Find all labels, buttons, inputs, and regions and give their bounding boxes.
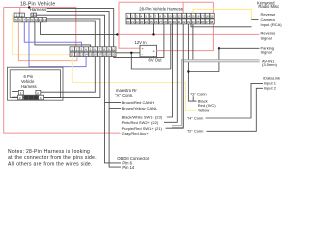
svg-text:Yellow: Yellow — [198, 108, 210, 113]
svg-text:6V Out: 6V Out — [149, 58, 163, 63]
node: junction on red at 18-pin — [28, 6, 30, 8]
wire: yellow illumination from 18-pin — [12, 15, 70, 55]
svg-text:24: 24 — [145, 20, 149, 24]
svg-text:17: 17 — [98, 53, 102, 57]
connector J2: maestro harness row 2 — [70, 52, 116, 57]
svg-text:(3.5mm): (3.5mm) — [262, 62, 278, 67]
wire: SW1+ (21) up to 28-pin — [166, 24, 184, 128]
wire: 6-pin left stub 2 — [12, 96, 18, 98]
wire: red pin stub on 18-pin pin 2 — [19, 8, 21, 14]
node: parking junction — [218, 47, 220, 49]
wire: red Gray/Red Acc+ run — [4, 8, 121, 134]
wire: maestro CANH run to OBDII pin 6 — [105, 57, 122, 163]
svg-text:"A" Conn.: "A" Conn. — [115, 93, 133, 98]
svg-text:Black/White SW1- (23): Black/White SW1- (23) — [122, 115, 163, 120]
component: 6-pin vehicle harness outer box — [8, 67, 64, 100]
svg-text:25: 25 — [150, 20, 154, 24]
node: tap junction — [152, 33, 154, 35]
svg-text:32: 32 — [182, 20, 186, 24]
svg-text:34: 34 — [191, 20, 195, 24]
svg-text:Notes: 28-Pin Harness is look: Notes: 28-Pin Harness is looking — [8, 149, 90, 155]
svg-text:11: 11 — [71, 53, 74, 57]
svg-text:19: 19 — [210, 14, 214, 18]
svg-text:Signal: Signal — [261, 35, 272, 40]
svg-text:12V In: 12V In — [135, 40, 148, 45]
svg-text:12: 12 — [43, 18, 47, 22]
connector J1 pin row 2 — [14, 17, 47, 22]
wire: red feed to converter input — [119, 2, 140, 48]
svg-text:37: 37 — [205, 20, 209, 24]
svg-text:29: 29 — [168, 20, 172, 24]
wire: yellow reverse camera — [193, 9, 251, 19]
svg-text:16: 16 — [94, 53, 98, 57]
svg-text:18: 18 — [103, 53, 107, 57]
wire: black ground drop from 28-pin to G-conn Black — [188, 24, 196, 101]
svg-text:13: 13 — [80, 53, 84, 57]
wire: CANH label stub — [105, 102, 122, 104]
wire: bypass link to parking — [188, 48, 219, 71]
svg-text:Pink/Red SW2+ (22): Pink/Red SW2+ (22) — [122, 120, 159, 125]
svg-text:Pin 14: Pin 14 — [122, 165, 135, 170]
svg-text:"G" Conn: "G" Conn — [190, 92, 207, 97]
wire: converter ground jog to 28-pin drop — [131, 53, 171, 69]
svg-text:"H" Conn: "H" Conn — [187, 115, 203, 120]
wire: SW2+ (22) up to 28-pin — [164, 24, 177, 122]
svg-text:17: 17 — [201, 14, 205, 18]
svg-text:13: 13 — [182, 14, 186, 18]
svg-text:15: 15 — [191, 14, 195, 18]
wire: SW1- (23) up to 28-pin — [167, 24, 173, 117]
svg-text:20: 20 — [112, 53, 116, 57]
connector J1 pin row 1 — [14, 13, 37, 17]
svg-text:21: 21 — [131, 20, 135, 24]
svg-text:27: 27 — [159, 20, 163, 24]
wire: 6-pin left stub 1 — [12, 91, 18, 93]
wire: cascade w2 — [47, 12, 110, 47]
wire: blue2 from 18-pin to maestro top — [24, 22, 81, 47]
component: converter box — [140, 45, 157, 57]
wire: 28-pin drop B to ground run — [170, 24, 172, 69]
svg-text:Input 2: Input 2 — [264, 86, 277, 91]
wire: cascade w4 — [46, 19, 100, 47]
component: 6-pin vehicle harness inner box — [10, 70, 60, 98]
wire: yellow long run to G-conn Yellow — [72, 57, 196, 111]
svg-text:12: 12 — [75, 53, 79, 57]
svg-text:16: 16 — [196, 14, 200, 18]
svg-text:33: 33 — [187, 20, 191, 24]
svg-text:Input (RCA): Input (RCA) — [261, 22, 283, 27]
wire: 28-pin drop to AV bar — [192, 24, 194, 60]
svg-text:19: 19 — [107, 53, 111, 57]
connector J2: maestro harness row 1 — [70, 47, 116, 52]
node: reverse junction — [116, 33, 118, 35]
svg-text:"D" Conn: "D" Conn — [187, 128, 203, 133]
svg-text:36: 36 — [201, 20, 205, 24]
svg-text:28: 28 — [163, 20, 167, 24]
svg-text:15: 15 — [89, 53, 93, 57]
node: parking bypass junction — [187, 70, 189, 72]
svg-text:Gray/Red Acc+: Gray/Red Acc+ — [122, 131, 150, 136]
wire: CANL label stub — [109, 108, 121, 110]
connector J4: 6-pin row 1 — [18, 90, 40, 95]
wire: cascade w6 (gray2 from row2) — [35, 22, 91, 47]
wire: H conn to input 1 — [206, 83, 264, 118]
svg-text:28-Pin Vehicle Harness: 28-Pin Vehicle Harness — [139, 7, 183, 12]
connector J4: 6-pin row 2 — [18, 95, 44, 100]
wire: cascade w1 from 18-pin to maestro harness — [47, 9, 114, 47]
svg-text:35: 35 — [196, 20, 200, 24]
svg-text:31: 31 — [177, 20, 181, 24]
wire: blue1 from 18-pin to maestro bottom — [29, 22, 86, 67]
svg-text:Signal: Signal — [261, 50, 272, 55]
connector J3: 28-pin row 1 — [126, 13, 214, 18]
wire: 28-pin pin tap to reverse run — [153, 24, 155, 35]
svg-text:Harness: Harness — [21, 84, 37, 89]
svg-text:38: 38 — [210, 20, 214, 24]
wire: red 12V accessory run to maestro harness — [4, 8, 76, 47]
wire: red top bus to radio acc — [119, 1, 213, 3]
connector J3: 28-pin row 2 — [126, 19, 214, 24]
wire: 6V output red to 28-pin — [157, 2, 214, 50]
wire: parking signal — [219, 47, 260, 49]
svg-text:All others are from the wires: All others are from the wires side. — [8, 161, 93, 167]
svg-text:20: 20 — [126, 20, 130, 24]
wire: cascade w3 — [37, 15, 105, 47]
wire: orange from 18-pin — [18, 22, 77, 61]
wire: converter ground to maestro — [116, 52, 140, 54]
svg-text:11: 11 — [39, 18, 42, 22]
wire: camera label stub — [251, 19, 258, 21]
svg-text:Brown/Red CANH: Brown/Red CANH — [122, 100, 154, 105]
wire: RCA gray to camera label — [191, 24, 252, 27]
wire: cascade w5 — [46, 21, 95, 47]
svg-text:30: 30 — [173, 20, 177, 24]
wire: G conn bracket — [192, 96, 194, 101]
wire: red drop to 28-pin acc pin — [182, 2, 184, 13]
wire: reverse signal (dark drop then red run to radio) — [41, 22, 118, 35]
svg-text:10: 10 — [112, 47, 116, 51]
node: ground junction — [130, 52, 132, 54]
svg-text:23: 23 — [140, 20, 144, 24]
wire: AV-IN1 thick cable — [172, 61, 260, 127]
svg-text:Brown/Yellow CANL: Brown/Yellow CANL — [122, 106, 158, 111]
wire: 28-pin drop A to maestro area — [114, 24, 164, 58]
svg-text:14: 14 — [187, 14, 191, 18]
svg-text:18: 18 — [205, 14, 209, 18]
svg-text:11: 11 — [173, 14, 176, 18]
wire: maestro CANL run to OBDII pin 14 — [109, 57, 121, 168]
svg-text:22: 22 — [136, 20, 140, 24]
svg-text:at the connector from the pins: at the connector from the pins side. — [8, 155, 97, 161]
svg-text:iDataLink: iDataLink — [263, 75, 280, 80]
svg-text:Radio Misc: Radio Misc — [258, 4, 279, 9]
wire: 6-pin to maestro link 2 — [44, 57, 100, 98]
wire: 6-pin to maestro link 1 — [41, 57, 96, 93]
svg-text:12: 12 — [177, 14, 181, 18]
wire: D conn to input 2 — [207, 88, 264, 131]
svg-text:14: 14 — [84, 53, 88, 57]
svg-text:10: 10 — [168, 14, 172, 18]
svg-text:26: 26 — [154, 20, 158, 24]
